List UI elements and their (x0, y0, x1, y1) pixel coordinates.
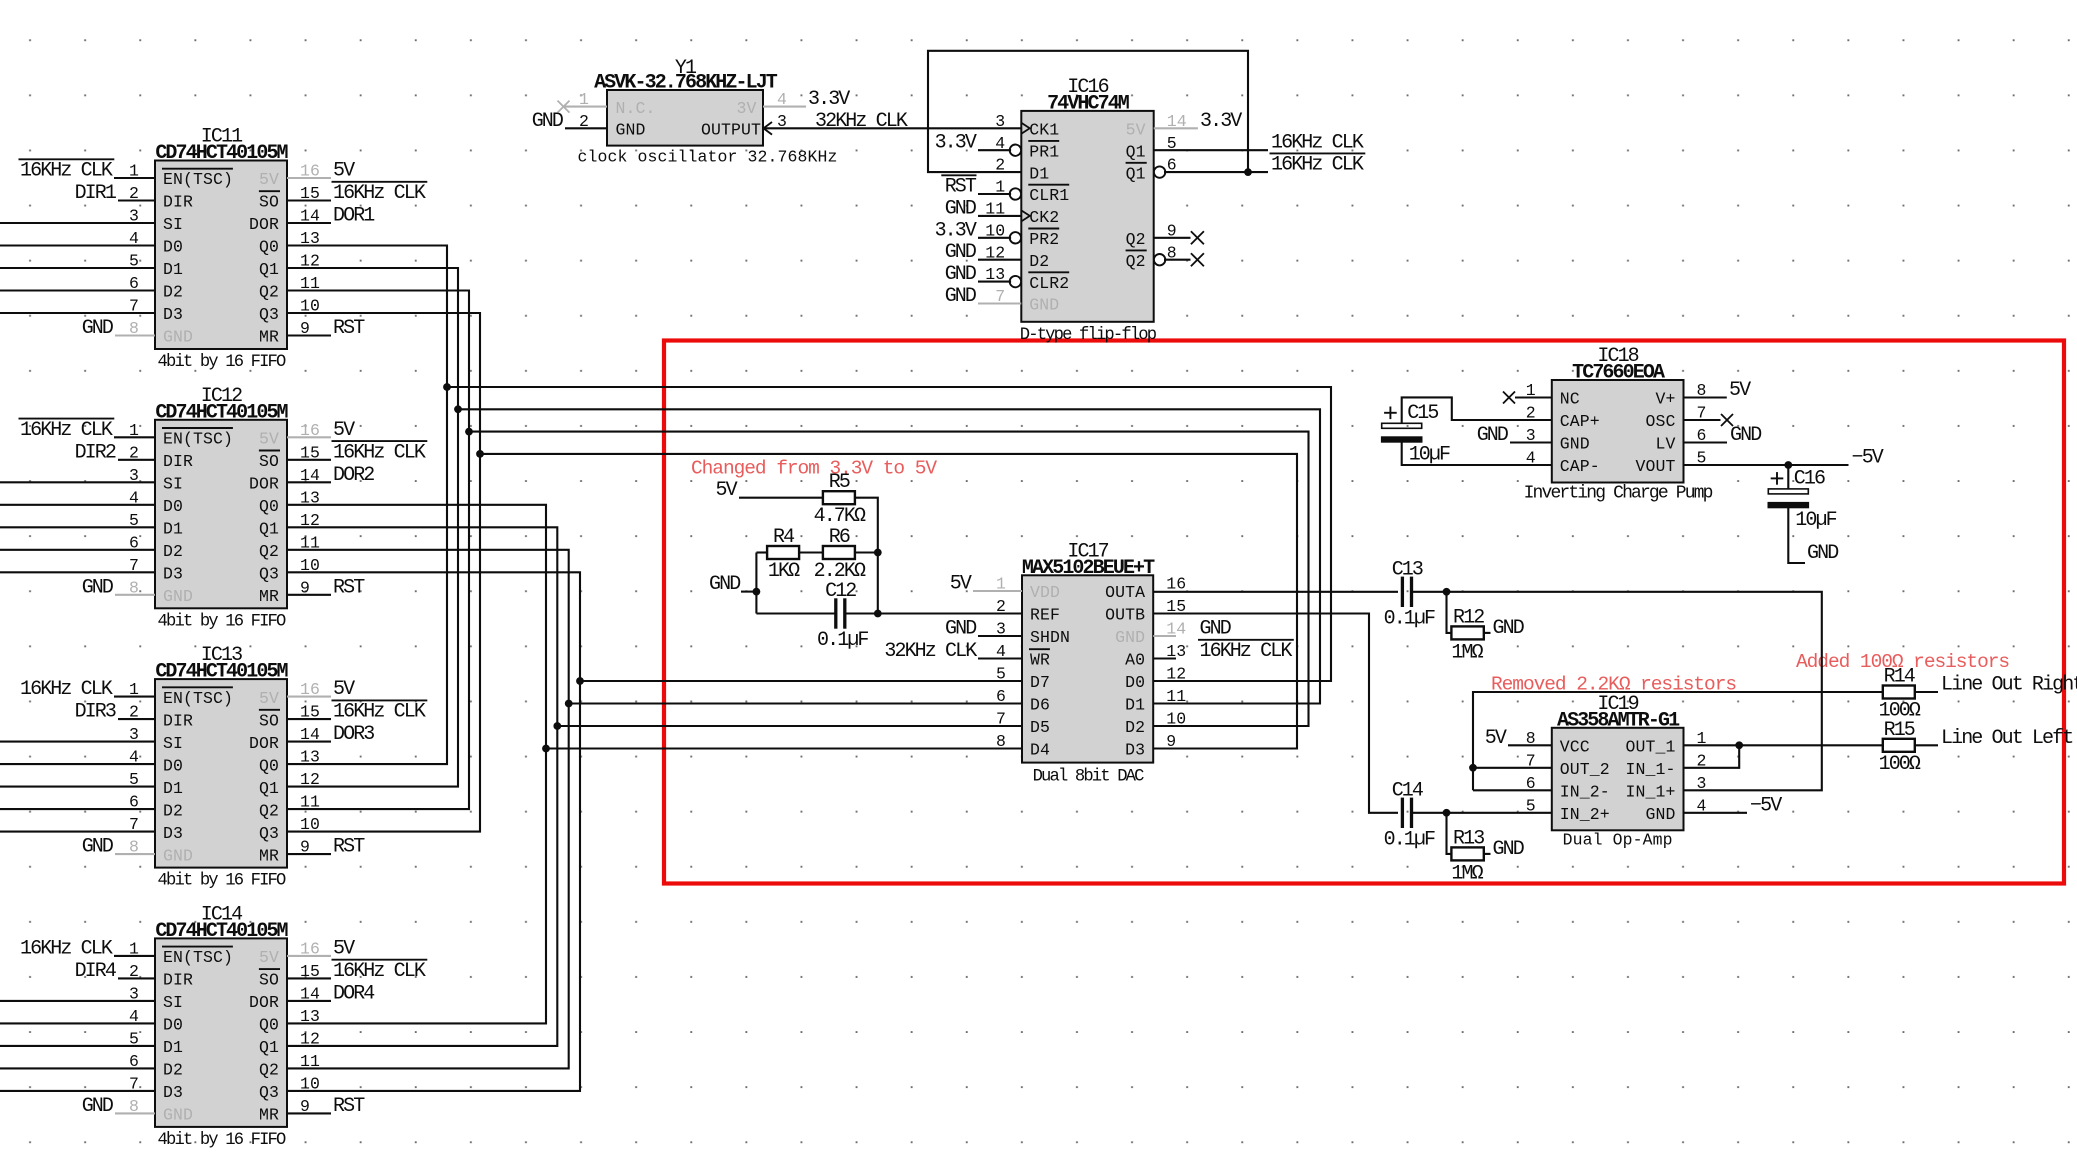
svg-text:5V: 5V (259, 689, 279, 708)
wire IC16 CK2 (978, 215, 1021, 217)
svg-text:REF: REF (1030, 606, 1060, 625)
svg-text:10: 10 (1166, 710, 1186, 729)
svg-text:AS358AMTR-G1: AS358AMTR-G1 (1557, 709, 1680, 732)
svg-text:Changed from 3.3V to 5V: Changed from 3.3V to 5V (691, 458, 937, 480)
svg-text:Q2: Q2 (1126, 252, 1146, 271)
wire node vertical to C12 (877, 553, 879, 614)
svg-text:SO: SO (259, 452, 279, 471)
svg-text:12: 12 (1166, 665, 1186, 684)
svg-text:0.1µF: 0.1µF (1384, 828, 1435, 851)
svg-text:16KHz CLK: 16KHz CLK (20, 937, 113, 960)
wire IC16 CLR1 (978, 193, 1011, 195)
gray power stub IC11 pin 16 5V (287, 177, 331, 179)
svg-text:IN_1+: IN_1+ (1625, 783, 1675, 802)
wire C15 bottom to IC18 CAP- (1402, 441, 1552, 465)
svg-text:16KHz CLK: 16KHz CLK (333, 701, 426, 724)
wire IC11 D2 input from left edge (0, 289, 155, 291)
svg-text:DOR3: DOR3 (333, 723, 374, 746)
wire IC16 feedback Q1-bar to D1 (928, 51, 1248, 172)
svg-text:GND: GND (1807, 542, 1838, 565)
svg-text:DIR: DIR (163, 711, 193, 730)
wire IC13 D3 input from left edge (0, 831, 155, 833)
svg-text:5: 5 (996, 665, 1006, 684)
wire C16 bottom to GND (1788, 507, 1805, 563)
svg-text:5V: 5V (1126, 121, 1146, 140)
wire GND node to R4 (756, 551, 767, 553)
svg-text:RST: RST (945, 176, 977, 199)
svg-text:Dual Op-Amp: Dual Op-Amp (1563, 830, 1673, 849)
junction VOUT / C16 (1784, 461, 1792, 469)
wire IC11 D1 input from left edge (0, 267, 155, 269)
wire IC12 MR input (287, 594, 331, 596)
wire IC16 CLR2 (978, 281, 1011, 283)
wire R14 to Line Out Right (1915, 691, 1938, 693)
wire IC16 PR1 (978, 149, 1011, 151)
svg-text:PR2: PR2 (1029, 230, 1059, 249)
wire IC11 SO output (287, 199, 331, 201)
svg-text:CAP+: CAP+ (1560, 412, 1600, 431)
svg-text:D1: D1 (163, 520, 183, 539)
svg-text:8: 8 (996, 732, 1006, 751)
svg-text:OSC: OSC (1645, 412, 1675, 431)
wire bus B1: IC12 Q1 / IC14 Q1 to DAC D5 (287, 527, 557, 1046)
svg-text:Q2: Q2 (259, 542, 279, 561)
svg-text:D1: D1 (1125, 696, 1145, 715)
wire IC16 Q1 output (1154, 149, 1268, 151)
svg-text:R15: R15 (1884, 719, 1915, 742)
svg-text:DOR: DOR (249, 734, 279, 753)
svg-text:C16: C16 (1794, 467, 1825, 490)
svg-text:D3: D3 (163, 1083, 183, 1102)
svg-text:EN(TSC): EN(TSC) (163, 689, 233, 708)
svg-text:3.3V: 3.3V (1200, 110, 1242, 133)
junction at C13 / R12 (1443, 588, 1451, 596)
svg-text:MR: MR (259, 587, 279, 606)
wire IC18 GND (1510, 441, 1552, 443)
svg-text:GND: GND (82, 576, 113, 599)
wire GND node vertical (755, 553, 757, 614)
svg-text:PR1: PR1 (1029, 142, 1059, 161)
svg-text:D0: D0 (163, 756, 183, 775)
wire C14 to junction to IC19 IN_2+ (1411, 812, 1552, 814)
no-connect X at IC18 OSC (1721, 414, 1733, 426)
wire C12 to REF node (845, 612, 878, 614)
svg-text:ASVK-32.768KHZ-LJT: ASVK-32.768KHZ-LJT (594, 72, 778, 95)
junction bus A3 (476, 450, 484, 458)
svg-text:D2: D2 (1125, 718, 1145, 737)
svg-text:D2: D2 (163, 542, 183, 561)
svg-text:D1: D1 (163, 260, 183, 279)
gray power stub IC13 pin 8 GND (115, 853, 155, 855)
resistor R13 1MΩ to GND (1447, 813, 1491, 886)
junction GND node (753, 588, 761, 596)
no-connect X at IC16 Q2-bar (1191, 253, 1204, 266)
svg-text:−5V: −5V (1852, 447, 1884, 470)
svg-text:Q3: Q3 (259, 565, 279, 584)
svg-text:Q2: Q2 (259, 283, 279, 302)
IC16 pin 4 PR1 (1010, 145, 1021, 156)
svg-text:NC: NC (1560, 390, 1580, 409)
junction bus A2 (465, 428, 473, 436)
wire IC11 D0 input from left edge (0, 244, 155, 246)
svg-text:OUT_1: OUT_1 (1625, 738, 1675, 757)
svg-text:GND: GND (945, 618, 976, 641)
svg-text:GND: GND (945, 197, 976, 220)
wire IC18 V+ to 5V (1684, 396, 1727, 398)
svg-text:9: 9 (1166, 732, 1176, 751)
wire IC13 D0 input from left edge (0, 763, 155, 765)
wire IC13 DOR output (287, 741, 331, 743)
gray power stub IC13 pin 16 5V (287, 696, 331, 698)
wire VOUT junction down to C16 (1787, 465, 1789, 489)
wire REF node to IC17 REF (878, 612, 1022, 614)
svg-text:MAX5102BEUE+T: MAX5102BEUE+T (1022, 557, 1155, 580)
svg-text:GND: GND (1493, 617, 1524, 640)
svg-text:3: 3 (1697, 774, 1707, 793)
svg-text:C12: C12 (825, 580, 856, 603)
wire IC19 IN_1- feedback (1684, 745, 1740, 768)
junction REF node (874, 610, 882, 618)
FIFO IC11 CD74HCT40105M 4bit by 16 FIFO (129, 126, 320, 373)
wire IC17 SHDN (978, 635, 1022, 637)
svg-text:1MΩ: 1MΩ (1451, 862, 1483, 885)
svg-text:D5: D5 (1030, 718, 1050, 737)
svg-text:DIR2: DIR2 (75, 441, 116, 464)
svg-text:16KHz CLK: 16KHz CLK (20, 419, 113, 442)
capacitor C15 10µF (1381, 402, 1450, 467)
gray power stub IC17 pin 14 GND (1153, 635, 1176, 637)
junction R6/R5 node (874, 549, 882, 557)
gray power stub IC16 pin 7 (978, 302, 1021, 304)
svg-text:D7: D7 (1030, 673, 1050, 692)
resistor R14 100Ω (1879, 666, 1921, 723)
svg-text:GND: GND (1730, 424, 1761, 447)
wire C13 to junction and on to IN_1+ of IC19 (1411, 592, 1822, 791)
svg-text:Q2: Q2 (259, 1061, 279, 1080)
svg-text:CK1: CK1 (1029, 121, 1059, 140)
svg-text:5V: 5V (259, 430, 279, 449)
svg-text:IN_1-: IN_1- (1625, 760, 1675, 779)
svg-text:4.7KΩ: 4.7KΩ (814, 505, 866, 528)
svg-text:Q2: Q2 (259, 801, 279, 820)
svg-text:3: 3 (995, 112, 1005, 131)
gray power stub IC14 pin 8 GND (115, 1112, 155, 1114)
wire IC19 GND to -5V (1684, 812, 1748, 814)
wire Y1 OUTPUT to IC16 CK1 (32KHz CLK) (763, 127, 1021, 129)
svg-text:EN(TSC): EN(TSC) (163, 170, 233, 189)
svg-text:SI: SI (163, 993, 183, 1012)
wire IC11 D3 input from left edge (0, 312, 155, 314)
svg-text:D1: D1 (163, 779, 183, 798)
svg-text:32KHz CLK: 32KHz CLK (884, 640, 977, 663)
svg-text:DIR1: DIR1 (75, 182, 117, 205)
wire IC17 WR (978, 657, 1022, 659)
wire R15 to Line Out Left (1915, 744, 1938, 746)
svg-text:GND: GND (1645, 805, 1675, 824)
wire IC16 Q2 stub (1154, 237, 1191, 239)
junction at C14 / R13 (1443, 809, 1451, 817)
svg-text:V+: V+ (1655, 390, 1675, 409)
svg-text:0.1µF: 0.1µF (1384, 607, 1435, 630)
svg-text:Q3: Q3 (259, 305, 279, 324)
svg-text:DOR2: DOR2 (333, 464, 374, 487)
wire IC13 D1 input from left edge (0, 786, 155, 788)
red highlight box (modified section) (664, 341, 2064, 884)
svg-text:10µF: 10µF (1795, 509, 1836, 532)
svg-text:D0: D0 (163, 1016, 183, 1035)
svg-text:Q3: Q3 (259, 1083, 279, 1102)
svg-text:GND: GND (163, 328, 193, 347)
svg-text:Q1: Q1 (1126, 164, 1146, 183)
svg-text:3.3V: 3.3V (935, 219, 977, 242)
wire IC13 SO output (287, 718, 331, 720)
wire IC16 Q2-bar stub (1164, 259, 1191, 261)
svg-text:16KHz CLK: 16KHz CLK (20, 678, 113, 701)
junction IC16 feedback at Q1-bar wire (1244, 168, 1252, 176)
gray power stub IC17 pin 1 VDD (973, 590, 1022, 592)
svg-text:Q2: Q2 (1126, 230, 1146, 249)
wire IC19 OUT_2 to feedback node and R14 (1473, 767, 1552, 769)
svg-text:CLR1: CLR1 (1029, 186, 1069, 205)
wire IC14 D0 input from left edge (0, 1022, 155, 1024)
svg-text:GND: GND (1477, 424, 1508, 447)
svg-text:GND: GND (945, 241, 976, 264)
wire IC19 OUT_1 to R15 (1684, 744, 1883, 746)
svg-text:3.3V: 3.3V (935, 132, 977, 155)
svg-text:GND: GND (1200, 618, 1231, 641)
svg-text:GND: GND (1115, 628, 1145, 647)
wire bus A0: IC11 Q0 / IC13 Q0 to DAC D0 (287, 246, 447, 765)
svg-text:100Ω: 100Ω (1879, 753, 1921, 776)
IC16 pin 6 Q1 (1154, 166, 1165, 177)
svg-text:DIR4: DIR4 (75, 960, 116, 983)
gray power stub IC12 pin 16 5V (287, 436, 331, 438)
wire IC13 MR input (287, 853, 331, 855)
svg-text:D3: D3 (163, 824, 183, 843)
svg-text:EN(TSC): EN(TSC) (163, 948, 233, 967)
no-connect X at IC18 NC (1515, 396, 1552, 398)
svg-text:GND: GND (532, 110, 563, 133)
wire IC18 VOUT to -5V (1684, 464, 1849, 466)
svg-text:MR: MR (259, 846, 279, 865)
svg-text:D1: D1 (163, 1038, 183, 1057)
svg-text:16KHz CLK: 16KHz CLK (333, 960, 426, 983)
FIFO IC13 CD74HCT40105M 4bit by 16 FIFO (129, 644, 320, 891)
op-amp IC19 AS358AMTR-G1 Dual Op-Amp (1526, 693, 1707, 850)
wire IC14 D1 input from left edge (0, 1045, 155, 1047)
svg-text:D2: D2 (1029, 252, 1049, 271)
wire IC17 OUTB down to C14 (1153, 614, 1398, 813)
junction OUT_1 node (1735, 741, 1743, 749)
svg-text:R5: R5 (829, 471, 850, 494)
svg-text:0.1µF: 0.1µF (817, 629, 868, 652)
svg-text:Line Out Right: Line Out Right (1941, 674, 2077, 697)
svg-text:C13: C13 (1392, 558, 1423, 581)
junction bus A1 (454, 405, 462, 413)
svg-text:CLR2: CLR2 (1029, 274, 1069, 293)
svg-text:DOR1: DOR1 (333, 205, 375, 228)
svg-text:GND: GND (163, 846, 193, 865)
svg-text:Q1: Q1 (1126, 142, 1146, 161)
wire IC13 DIR input (118, 718, 155, 720)
svg-text:DOR4: DOR4 (333, 982, 374, 1005)
wire IC11 EN input (114, 177, 155, 179)
svg-text:R12: R12 (1453, 606, 1484, 629)
svg-text:Q1: Q1 (259, 260, 279, 279)
svg-text:MR: MR (259, 328, 279, 347)
wire IC14 SO output (287, 977, 331, 979)
wire IC14 SI input from left edge (0, 1000, 155, 1002)
svg-text:Q0: Q0 (259, 238, 279, 257)
svg-text:R4: R4 (773, 526, 794, 549)
IC16 pin 1 CLR1 (1010, 188, 1021, 199)
svg-text:4bit by 16 FIFO: 4bit by 16 FIFO (158, 353, 286, 372)
svg-text:RST: RST (333, 576, 365, 599)
svg-text:5V: 5V (715, 479, 737, 502)
svg-text:74VHC74M: 74VHC74M (1047, 92, 1130, 115)
wire IC17 A0 (1153, 657, 1176, 659)
svg-text:DOR: DOR (249, 475, 279, 494)
svg-text:GND: GND (163, 587, 193, 606)
svg-text:32KHz CLK: 32KHz CLK (815, 110, 908, 133)
wire IC19 IN_2- feedback (1473, 789, 1552, 791)
svg-text:GND: GND (82, 836, 113, 859)
svg-text:SI: SI (163, 215, 183, 234)
svg-text:GND: GND (1029, 296, 1059, 315)
svg-text:DOR: DOR (249, 215, 279, 234)
svg-text:GND: GND (82, 317, 113, 340)
wire IC16 Q1-bar output (1164, 171, 1268, 173)
junction bus B0 (542, 745, 550, 753)
wire IC14 D3 input from left edge (0, 1090, 155, 1092)
IC16 pin 13 CLR2 (1010, 276, 1021, 287)
svg-text:16KHz CLK: 16KHz CLK (333, 182, 426, 205)
svg-text:VOUT: VOUT (1635, 457, 1675, 476)
svg-text:R14: R14 (1884, 666, 1915, 689)
wire IC12 DOR output (287, 481, 331, 483)
svg-text:3.3V: 3.3V (808, 88, 850, 111)
FIFO IC12 CD74HCT40105M 4bit by 16 FIFO (129, 385, 320, 632)
svg-text:SO: SO (259, 711, 279, 730)
svg-text:CD74HCT40105M: CD74HCT40105M (155, 920, 288, 943)
wire bus A3: IC11 Q3 / IC13 Q3 to DAC D3 (287, 313, 480, 832)
svg-text:CAP-: CAP- (1560, 457, 1600, 476)
wire IC14 DOR output (287, 1000, 331, 1002)
svg-text:−5V: −5V (1750, 794, 1782, 817)
gray power stub IC11 pin 8 GND (115, 334, 155, 336)
svg-text:D3: D3 (163, 565, 183, 584)
svg-text:OUT_2: OUT_2 (1560, 760, 1610, 779)
svg-text:4bit by 16 FIFO: 4bit by 16 FIFO (158, 872, 286, 891)
svg-text:Q3: Q3 (259, 824, 279, 843)
wire IC16 PR2 (978, 237, 1011, 239)
svg-text:D-type flip-flop: D-type flip-flop (1020, 326, 1157, 345)
svg-text:16KHz CLK: 16KHz CLK (1200, 640, 1293, 663)
svg-text:WR: WR (1030, 651, 1050, 670)
svg-text:16KHz CLK: 16KHz CLK (333, 441, 426, 464)
svg-text:Inverting Charge Pump: Inverting Charge Pump (1524, 484, 1713, 504)
svg-text:GND: GND (616, 121, 646, 140)
svg-text:7: 7 (996, 710, 1006, 729)
wire IC12 D0 input from left edge (0, 504, 155, 506)
junction bus B1 (553, 722, 561, 730)
wire IC18 OSC stub (1684, 419, 1721, 421)
svg-text:DOR: DOR (249, 993, 279, 1012)
svg-text:4bit by 16 FIFO: 4bit by 16 FIFO (158, 1131, 286, 1150)
svg-text:RST: RST (333, 836, 365, 859)
svg-text:DIR: DIR (163, 193, 193, 212)
gray power stub IC12 pin 8 GND (115, 594, 155, 596)
svg-text:5V: 5V (1485, 727, 1507, 750)
svg-text:5V: 5V (950, 573, 972, 596)
svg-text:16KHz CLK: 16KHz CLK (1271, 132, 1364, 155)
resistor R12 1MΩ to GND (1447, 592, 1491, 665)
wire 5V to R5 (739, 497, 823, 499)
svg-text:D3: D3 (1125, 741, 1145, 760)
svg-text:EN(TSC): EN(TSC) (163, 430, 233, 449)
junction bus B2 (565, 700, 573, 708)
wire bus B3: IC12 Q3 / IC14 Q3 to DAC D7 (287, 572, 580, 1091)
wire IC14 MR input (287, 1112, 331, 1114)
svg-text:1KΩ: 1KΩ (768, 560, 800, 583)
svg-text:5V: 5V (333, 419, 355, 442)
wire C15 top to IC18 CAP+ (1402, 397, 1552, 423)
svg-text:SHDN: SHDN (1030, 628, 1070, 647)
svg-text:D6: D6 (1030, 696, 1050, 715)
wire IC14 EN input (114, 955, 155, 957)
svg-text:Line Out Left: Line Out Left (1941, 727, 2072, 750)
svg-text:D3: D3 (163, 305, 183, 324)
gray power stub IC16 pin 14 5V (1154, 127, 1198, 129)
svg-text:clock oscillator 32.768KHz: clock oscillator 32.768KHz (578, 148, 838, 167)
svg-text:CK2: CK2 (1029, 208, 1059, 227)
svg-text:D4: D4 (1030, 741, 1050, 760)
wire bus A2: IC11 Q2 / IC13 Q2 to DAC D2 (287, 291, 469, 810)
svg-text:D2: D2 (163, 1061, 183, 1080)
FIFO IC14 CD74HCT40105M 4bit by 16 FIFO (129, 903, 320, 1150)
svg-text:OUTPUT: OUTPUT (701, 121, 761, 140)
wire R4 to R6 (799, 551, 823, 553)
svg-text:MR: MR (259, 1106, 279, 1125)
wire IC12 D2 input from left edge (0, 549, 155, 551)
wire IC14 DIR input (118, 977, 155, 979)
svg-text:SO: SO (259, 193, 279, 212)
wire IC12 EN input (114, 436, 155, 438)
svg-text:D1: D1 (1029, 164, 1049, 183)
svg-text:GND: GND (1493, 838, 1524, 861)
wire IC11 DOR output (287, 222, 331, 224)
svg-text:1MΩ: 1MΩ (1451, 641, 1483, 664)
wire IC14 D2 input from left edge (0, 1067, 155, 1069)
wire IC16 D2 (978, 259, 1021, 261)
svg-text:Q0: Q0 (259, 497, 279, 516)
oscillator Y1 ASVK-32.768KHZ-LJT clock oscillator 32.768KHz (558, 57, 838, 167)
wire GND node to C12 (756, 612, 836, 614)
svg-text:N.C.: N.C. (616, 99, 656, 118)
junction bus A0 (443, 383, 451, 391)
svg-text:5V: 5V (259, 948, 279, 967)
capacitor C13 0.1µF (1384, 558, 1435, 630)
svg-text:11: 11 (1166, 687, 1186, 706)
svg-text:GND: GND (709, 573, 740, 596)
svg-text:10µF: 10µF (1409, 443, 1450, 466)
charge pump IC18 TC7660EOA Inverting Charge Pump (1524, 345, 1713, 504)
no-connect X at IC16 Q2 (1191, 231, 1204, 244)
capacitor C12 0.1µF (817, 580, 868, 652)
wire IC11 DIR input (118, 199, 155, 201)
svg-text:5V: 5V (1729, 379, 1751, 402)
IC16 pin 8 Q2 (1154, 254, 1165, 265)
